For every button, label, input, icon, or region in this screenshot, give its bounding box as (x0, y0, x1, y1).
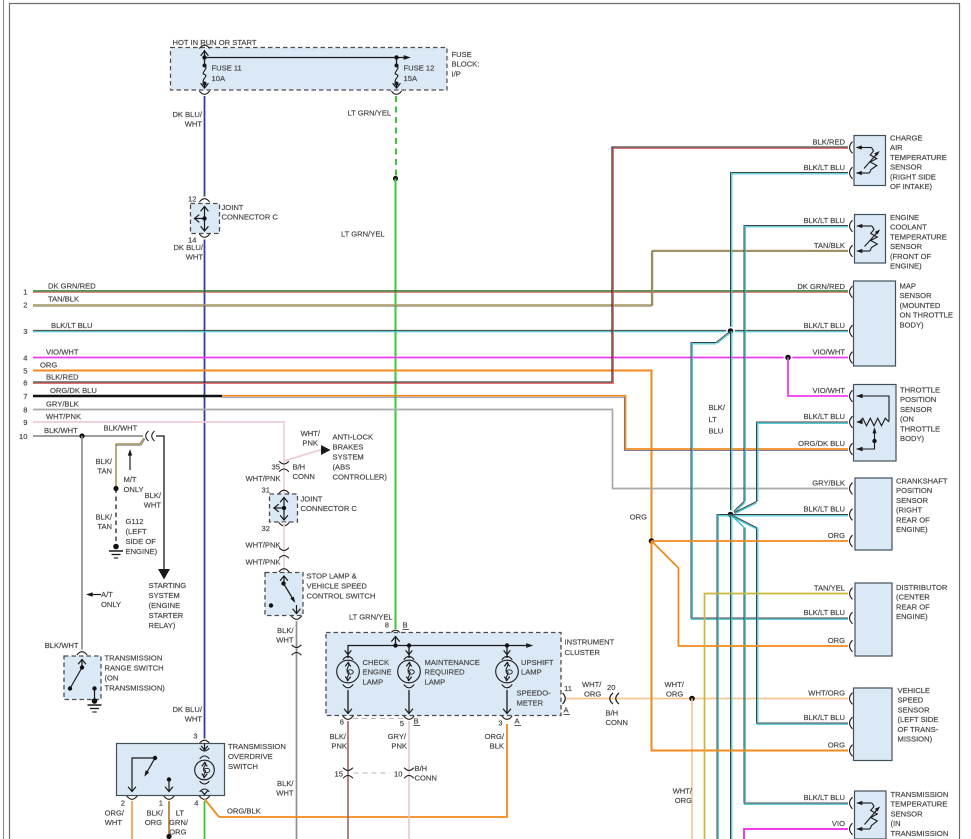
svg-text:4: 4 (23, 354, 27, 363)
crankshaft position sensor (right rear of engine) (803, 477, 947, 551)
distributor (center rear of engine) (803, 583, 947, 656)
svg-text:CONTROLLER): CONTROLLER) (333, 473, 388, 482)
vehicle speed sensor (left side of transmission) (803, 686, 938, 761)
wire VIO from bottom of page to transmission temperature sensor (744, 829, 848, 839)
svg-text:BLK/: BLK/ (96, 457, 113, 466)
svg-text:DK BLU/: DK BLU/ (173, 243, 203, 252)
svg-text:LAMP: LAMP (363, 677, 384, 686)
svg-text:RANGE SWITCH: RANGE SWITCH (105, 664, 164, 673)
B/H connector cavities 15 and 10 (335, 764, 437, 783)
svg-text:RELAY): RELAY) (149, 621, 176, 630)
svg-text:OF TRANS-: OF TRANS- (898, 725, 939, 734)
svg-text:ONLY: ONLY (124, 485, 144, 494)
svg-text:VIO/WHT: VIO/WHT (813, 386, 846, 395)
svg-text:BLK/: BLK/ (330, 732, 347, 741)
svg-text:MISSION): MISSION) (898, 735, 933, 744)
svg-text:GRY/: GRY/ (388, 732, 407, 741)
svg-text:SIDE OF: SIDE OF (126, 537, 157, 546)
svg-text:A/T: A/T (101, 590, 113, 599)
svg-text:10A: 10A (212, 74, 226, 83)
svg-text:AIR: AIR (890, 143, 903, 152)
joint connector C (lower) pins 31/32 (262, 486, 358, 534)
wire BLK/WHT below stop lamp switch to bottom of page (276, 616, 301, 839)
svg-text:3: 3 (193, 732, 197, 741)
svg-text:15: 15 (335, 770, 343, 779)
svg-text:ANTI-LOCK: ANTI-LOCK (333, 433, 374, 442)
wire 8 GRY/BLK to crankshaft position sensor (33, 410, 848, 489)
svg-text:POSITION: POSITION (900, 395, 936, 404)
wire ORG branch to distributor (652, 541, 849, 646)
svg-text:INSTRUMENT: INSTRUMENT (565, 638, 615, 647)
splice on ORG trunk (649, 538, 655, 544)
ground at transmission range switch (88, 698, 102, 712)
svg-text:WHT/: WHT/ (582, 680, 602, 689)
svg-text:FUSE 12: FUSE 12 (404, 64, 435, 73)
wire 7 ORG/DK BLU to throttle position sensor (222, 396, 848, 451)
wire 6 BLK/RED to charge air temperature sensor (33, 147, 848, 383)
fuse F12 FUSE 12 15A (391, 58, 434, 95)
overdrive switch pins 2 1 4 (121, 796, 210, 808)
svg-text:TEMPERATURE: TEMPERATURE (890, 232, 947, 241)
svg-text:DK BLU/: DK BLU/ (172, 705, 202, 714)
svg-text:B/H: B/H (415, 764, 428, 773)
svg-text:SENSOR: SENSOR (890, 242, 923, 251)
svg-text:MAP: MAP (900, 282, 916, 291)
wire 1 DK GRN/RED to MAP sensor (33, 291, 848, 293)
wire DK BLU/WHT from joint connector C down to overdrive switch (172, 240, 204, 739)
svg-text:ENGINE): ENGINE) (126, 547, 158, 556)
svg-text:ORG: ORG (40, 360, 57, 369)
svg-text:I/P: I/P (452, 69, 461, 78)
svg-text:WHT: WHT (105, 818, 123, 827)
svg-text:LT GRN/YEL: LT GRN/YEL (348, 109, 392, 118)
svg-text:SENSOR: SENSOR (896, 496, 929, 505)
svg-text:CONNECTOR C: CONNECTOR C (301, 504, 358, 513)
svg-text:DK GRN/RED: DK GRN/RED (48, 281, 96, 290)
svg-text:35: 35 (272, 463, 280, 472)
speedometer label and cluster pin 11 (517, 684, 573, 715)
svg-text:WHT/: WHT/ (665, 680, 685, 689)
wire LT GRN/ORG from pin 4 (169, 801, 204, 839)
svg-text:1: 1 (159, 799, 163, 808)
svg-text:ORG/BLK: ORG/BLK (227, 807, 261, 816)
svg-text:THROTTLE: THROTTLE (900, 386, 940, 395)
svg-text:CONN: CONN (606, 718, 628, 727)
wire GRY/PNK from cluster pin 5 (388, 721, 409, 839)
svg-text:CHARGE: CHARGE (890, 134, 923, 143)
wire BLK/LT BLU to crankshaft position sensor (731, 515, 849, 516)
svg-text:BLOCK:: BLOCK: (452, 60, 480, 69)
wire BLK/WHT to starting system (144, 436, 164, 569)
MAP sensor (mounted on throttle body) (797, 281, 953, 366)
svg-text:4: 4 (194, 799, 198, 808)
svg-text:SENSOR: SENSOR (898, 705, 931, 714)
svg-text:TAN/BLK: TAN/BLK (814, 241, 845, 250)
svg-text:(RIGHT SIDE: (RIGHT SIDE (890, 172, 936, 181)
svg-text:M/T: M/T (124, 475, 137, 484)
svg-text:ONLY: ONLY (101, 600, 121, 609)
upshift lamp in cluster (496, 650, 554, 713)
svg-text:(CENTER: (CENTER (896, 593, 930, 602)
splice on BLK/WHT (79, 433, 84, 438)
svg-text:ENGINE): ENGINE) (896, 612, 928, 621)
starting system arrow (engine starter relay) (149, 569, 187, 630)
fuse block I/P (dashed box) (171, 38, 480, 90)
B/H connector cavity 35 (245, 461, 314, 483)
svg-text:STOP LAMP &: STOP LAMP & (307, 572, 357, 581)
svg-text:CLUSTER: CLUSTER (565, 648, 601, 657)
wire ORG/BLK from pin 4 to instrument cluster pin 3 (205, 724, 508, 817)
svg-text:7: 7 (23, 392, 27, 401)
wire WHT/PNK down through B/H connector 35 (283, 461, 285, 494)
svg-text:ORG/: ORG/ (105, 809, 125, 818)
svg-text:12: 12 (188, 195, 196, 204)
throttle position sensor (on throttle body) (798, 385, 940, 462)
wire BLK/TAN dashed to ground G112 (96, 489, 116, 545)
maintenance lamp in cluster (398, 650, 480, 713)
svg-text:ENGINE: ENGINE (363, 668, 392, 677)
overdrive indicator lamp (195, 744, 215, 795)
svg-text:ORG: ORG (169, 828, 186, 837)
engine coolant temperature sensor (front of engine) (803, 213, 946, 271)
svg-text:MAINTENANCE: MAINTENANCE (425, 658, 480, 667)
svg-text:CONN: CONN (415, 774, 437, 783)
M/T ONLY arrow (124, 449, 144, 494)
svg-text:BLK/RED: BLK/RED (46, 372, 79, 381)
overdrive switch contacts (128, 756, 173, 792)
svg-text:ENGINE): ENGINE) (896, 525, 928, 534)
svg-text:BLK/LT BLU: BLK/LT BLU (803, 608, 845, 617)
svg-text:WHT: WHT (276, 636, 294, 645)
svg-text:WHT: WHT (186, 253, 204, 262)
svg-text:BLK/LT BLU: BLK/LT BLU (803, 321, 845, 330)
wire BLK/LT BLU riser to charge air temperature sensor (731, 173, 849, 331)
svg-text:JOINT: JOINT (222, 203, 244, 212)
svg-text:FUSE 11: FUSE 11 (212, 64, 242, 73)
svg-text:WHT/PNK: WHT/PNK (46, 412, 81, 421)
svg-text:ORG: ORG (666, 690, 683, 699)
svg-text:SYSTEM: SYSTEM (149, 591, 180, 600)
svg-text:B: B (414, 717, 419, 726)
wire BLK/LT BLU branch left down to bottom of page (717, 515, 731, 839)
splice on WHT/ORG (689, 696, 695, 702)
svg-text:REQUIRED: REQUIRED (425, 668, 466, 677)
joint connector C (upper) pins 12/14 (188, 195, 278, 245)
svg-text:ORG: ORG (584, 690, 601, 699)
svg-text:5: 5 (23, 367, 27, 376)
svg-text:3: 3 (498, 719, 502, 728)
svg-text:WHT/PNK: WHT/PNK (245, 558, 280, 567)
svg-text:ORG: ORG (675, 796, 692, 805)
wire BLK/TAN from clutch switch to ground splice (96, 438, 145, 487)
svg-text:B/H: B/H (606, 709, 619, 718)
svg-text:WHT/PNK: WHT/PNK (245, 541, 280, 550)
clutch upstop switch (two arcs) on BLK/WHT (146, 431, 155, 441)
svg-text:GRN/: GRN/ (169, 818, 189, 827)
svg-text:TRANSMISSION: TRANSMISSION (105, 654, 163, 663)
svg-text:CHECK: CHECK (363, 658, 390, 667)
svg-text:STARTING: STARTING (149, 581, 187, 590)
svg-text:ORG: ORG (828, 636, 845, 645)
svg-text:HOT IN RUN OR START: HOT IN RUN OR START (173, 38, 257, 47)
svg-text:VIO/WHT: VIO/WHT (813, 348, 846, 357)
svg-text:ENGINE): ENGINE) (890, 262, 922, 271)
svg-text:(LEFT SIDE: (LEFT SIDE (898, 715, 939, 724)
wire 5 ORG trunk (33, 371, 652, 542)
svg-text:TEMPERATURE: TEMPERATURE (890, 153, 947, 162)
wire BLK/PNK from cluster pin 6 (330, 721, 348, 839)
svg-text:LT: LT (176, 809, 185, 818)
svg-text:CONNECTOR C: CONNECTOR C (222, 213, 279, 222)
svg-text:BLK/: BLK/ (145, 491, 162, 500)
svg-text:BLK/: BLK/ (147, 809, 164, 818)
svg-text:A: A (564, 706, 570, 715)
svg-text:FUSE: FUSE (452, 50, 472, 59)
wire 2 TAN/BLK to engine coolant temperature sensor (33, 251, 848, 307)
svg-text:BLK/: BLK/ (96, 513, 113, 522)
svg-text:BLK/LT BLU: BLK/LT BLU (51, 321, 93, 330)
check lamp in cluster (337, 650, 392, 713)
svg-text:BODY): BODY) (900, 434, 925, 443)
transmission temperature sensor (in transmission) (803, 790, 948, 839)
svg-text:BLK/: BLK/ (277, 779, 294, 788)
svg-text:OF INTAKE): OF INTAKE) (890, 182, 933, 191)
svg-text:(ENGINE: (ENGINE (149, 601, 181, 610)
svg-text:BLK/LT BLU: BLK/LT BLU (803, 216, 845, 225)
wire DK BLU/WHT from fuse 11 to joint connector C (172, 96, 204, 197)
svg-text:ENGINE: ENGINE (890, 213, 919, 222)
wire 7 ORG/DK BLU (black segment) (33, 395, 222, 398)
svg-text:BLK/WHT: BLK/WHT (45, 641, 79, 650)
svg-text:ORG: ORG (828, 741, 845, 750)
wire ORG/WHT from pin 2 (105, 801, 132, 839)
svg-text:B: B (403, 621, 408, 630)
svg-text:GRY/BLK: GRY/BLK (812, 479, 845, 488)
svg-text:TAN: TAN (97, 522, 112, 531)
svg-text:B/H: B/H (293, 463, 306, 472)
wire BLK/LT BLU riser to engine coolant sensor (731, 226, 849, 516)
svg-text:DK GRN/RED: DK GRN/RED (797, 282, 845, 291)
svg-text:THROTTLE: THROTTLE (900, 424, 940, 433)
wire WHT/ORG from speedometer pin 11 through B/H connector 20 (566, 680, 848, 727)
svg-text:SENSOR: SENSOR (900, 291, 933, 300)
fuse F11 FUSE 11 10A (199, 64, 241, 95)
svg-text:TEMPERATURE: TEMPERATURE (891, 800, 948, 809)
svg-text:BLK/RED: BLK/RED (813, 138, 846, 147)
svg-text:DISTRIBUTOR: DISTRIBUTOR (896, 583, 948, 592)
wire BLK/LT BLU branch to transmission temperature sensor (731, 515, 849, 805)
svg-text:ORG/: ORG/ (485, 732, 505, 741)
svg-text:20: 20 (607, 683, 615, 692)
svg-text:CONN: CONN (293, 472, 315, 481)
svg-text:LT: LT (709, 415, 718, 424)
svg-text:PNK: PNK (302, 439, 318, 448)
svg-text:WHT: WHT (185, 715, 203, 724)
splice of BLK/LT BLU lower (726, 510, 735, 519)
charge air temperature sensor (right side of intake) (803, 134, 946, 192)
svg-text:ORG: ORG (145, 818, 162, 827)
wire ORG to crankshaft position sensor (652, 540, 849, 542)
wire VIO/WHT branch to throttle position sensor (788, 358, 848, 397)
wire 4 VIO/WHT to MAP sensor (33, 357, 848, 359)
anti-lock brakes system (ABS controller) arrow (321, 433, 387, 482)
svg-text:2: 2 (121, 799, 125, 808)
svg-text:(ON: (ON (105, 674, 119, 683)
splice node on LT GRN/YEL (393, 176, 398, 181)
svg-text:TAN: TAN (97, 467, 112, 476)
transmission overdrive switch box (117, 732, 286, 796)
wire BLK/LT BLU trunk between splices (731, 331, 732, 515)
svg-text:8: 8 (385, 621, 389, 630)
svg-text:BLK/LT BLU: BLK/LT BLU (803, 505, 845, 514)
svg-text:(ABS: (ABS (333, 463, 351, 472)
svg-text:9: 9 (23, 418, 27, 427)
svg-text:BLK/LT BLU: BLK/LT BLU (803, 793, 845, 802)
circuit row numbers 1-10 and wire name labels (19, 281, 97, 441)
cluster pins 6 5 3 at bottom (340, 716, 521, 728)
svg-text:WHT: WHT (144, 501, 162, 510)
svg-text:METER: METER (517, 699, 544, 708)
svg-text:TAN/BLK: TAN/BLK (48, 294, 79, 303)
svg-text:8: 8 (23, 406, 27, 415)
svg-text:ORG: ORG (828, 531, 845, 540)
svg-text:UPSHIFT: UPSHIFT (521, 658, 554, 667)
svg-text:(LEFT: (LEFT (126, 527, 147, 536)
svg-text:BODY): BODY) (900, 320, 925, 329)
svg-text:ON THROTTLE: ON THROTTLE (900, 311, 953, 320)
svg-text:G112: G112 (126, 517, 144, 526)
svg-text:VIO: VIO (832, 819, 845, 828)
svg-text:(MOUNTED: (MOUNTED (900, 301, 941, 310)
A/T ONLY arrow (86, 590, 121, 609)
svg-text:BLK/LT BLU: BLK/LT BLU (803, 713, 845, 722)
svg-text:DK BLU/: DK BLU/ (172, 110, 202, 119)
svg-text:(IN: (IN (891, 819, 901, 828)
svg-text:ORG: ORG (630, 513, 647, 522)
svg-text:REAR OF: REAR OF (896, 602, 930, 611)
svg-text:TRANSMISSION): TRANSMISSION) (105, 684, 166, 693)
svg-text:TAN/YEL: TAN/YEL (814, 584, 845, 593)
svg-text:WHT: WHT (276, 789, 294, 798)
svg-text:SYSTEM: SYSTEM (333, 453, 364, 462)
svg-text:10: 10 (394, 770, 402, 779)
svg-text:TRANSMISSION: TRANSMISSION (891, 829, 949, 838)
svg-text:BLK/WHT: BLK/WHT (44, 426, 78, 435)
svg-text:SENSOR: SENSOR (890, 163, 923, 172)
splice on BLK/TAN (113, 486, 118, 491)
svg-text:LAMP: LAMP (521, 668, 542, 677)
svg-text:GRY/BLK: GRY/BLK (46, 399, 79, 408)
svg-text:WHT/: WHT/ (301, 429, 321, 438)
splice on VIO/WHT (784, 353, 793, 362)
svg-text:6: 6 (340, 718, 344, 727)
wire LT GRN/YEL from fuse 12 (dashed off-page segment) (348, 96, 397, 177)
wire WHT/PNK from connector 32 to stop lamp switch (245, 522, 289, 572)
svg-text:PNK: PNK (331, 742, 347, 751)
svg-text:WHT/ORG: WHT/ORG (808, 689, 845, 698)
svg-text:ORG/DK BLU: ORG/DK BLU (798, 439, 845, 448)
svg-text:REAR OF: REAR OF (896, 515, 930, 524)
ground G112 (left side of engine) (109, 517, 158, 558)
svg-text:SWITCH: SWITCH (228, 762, 258, 771)
svg-text:3: 3 (23, 327, 27, 336)
svg-text:LAMP: LAMP (425, 677, 446, 686)
svg-text:BLK/WHT: BLK/WHT (104, 424, 138, 433)
svg-text:TRANSMISSION: TRANSMISSION (891, 790, 949, 799)
svg-text:11: 11 (564, 684, 572, 693)
hot feed node and bus inside fuse block (199, 45, 410, 65)
svg-text:BRAKES: BRAKES (333, 443, 364, 452)
svg-text:(ON: (ON (900, 415, 914, 424)
svg-text:CRANKSHAFT: CRANKSHAFT (896, 477, 948, 486)
svg-text:CONTROL SWITCH: CONTROL SWITCH (307, 592, 376, 601)
svg-text:(FRONT OF: (FRONT OF (890, 252, 932, 261)
svg-text:OVERDRIVE: OVERDRIVE (228, 752, 273, 761)
svg-text:WHT: WHT (185, 120, 203, 129)
svg-text:10: 10 (19, 432, 27, 441)
svg-text:SENSOR: SENSOR (900, 405, 933, 414)
transmission range switch (on transmission) (64, 652, 165, 700)
svg-text:ORG/DK BLU: ORG/DK BLU (50, 386, 97, 395)
svg-text:15A: 15A (404, 74, 418, 83)
svg-text:SPEED: SPEED (898, 696, 924, 705)
svg-text:32: 32 (262, 524, 270, 533)
svg-text:6: 6 (23, 379, 27, 388)
svg-text:BLK/: BLK/ (709, 403, 726, 412)
svg-text:POSITION: POSITION (896, 486, 932, 495)
wire 10 BLK/WHT trunk (33, 424, 143, 437)
svg-text:VEHICLE SPEED: VEHICLE SPEED (307, 582, 368, 591)
svg-text:WHT/PNK: WHT/PNK (245, 474, 280, 483)
stop lamp & vehicle speed control switch (265, 572, 375, 616)
svg-text:TRANSMISSION: TRANSMISSION (228, 742, 286, 751)
svg-text:WHT/: WHT/ (673, 787, 693, 796)
splice of BLK/LT BLU on circuit 3 (726, 327, 735, 336)
svg-text:BLK: BLK (490, 742, 504, 751)
wire ORG trunk down to vehicle speed sensor (652, 541, 849, 751)
svg-text:BLK/LT BLU: BLK/LT BLU (803, 412, 845, 421)
wire BLK/ORG from pin 1 (145, 801, 172, 839)
wire BLK/LT BLU branch to vehicle speed sensor (731, 515, 849, 725)
svg-text:STARTER: STARTER (149, 611, 184, 620)
wire BLK/LT BLU riser to throttle position sensor (731, 422, 849, 516)
svg-text:1: 1 (23, 288, 27, 297)
svg-text:31: 31 (262, 486, 270, 495)
svg-text:(RIGHT: (RIGHT (896, 506, 923, 515)
svg-text:VEHICLE: VEHICLE (898, 686, 931, 695)
svg-text:VIO/WHT: VIO/WHT (46, 347, 79, 356)
svg-text:JOINT: JOINT (301, 495, 323, 504)
wire TAN/YEL from bottom of page to distributor (705, 594, 849, 839)
svg-text:5: 5 (400, 719, 404, 728)
cluster feed bus from pin 8 (348, 637, 533, 659)
svg-text:BLK/LT BLU: BLK/LT BLU (803, 163, 845, 172)
wire 9 WHT/PNK trunk (33, 422, 284, 461)
wire BLK/LT BLU branch to distributor (691, 331, 848, 619)
svg-text:PNK: PNK (391, 742, 407, 751)
svg-text:LT GRN/YEL: LT GRN/YEL (341, 230, 385, 239)
wire WHT/PNK branch to anti-lock brakes system (284, 429, 322, 461)
svg-text:BLK/: BLK/ (277, 626, 294, 635)
svg-text:SPEEDO-: SPEEDO- (517, 689, 552, 698)
svg-text:2: 2 (23, 301, 27, 310)
wire LT GRN/YEL down to instrument cluster pin 8 (341, 179, 396, 630)
svg-text:BLU: BLU (709, 427, 724, 436)
svg-text:COOLANT: COOLANT (890, 223, 927, 232)
wire WHT/ORG branch down to bottom of page (673, 699, 693, 839)
svg-text:A: A (515, 717, 521, 726)
wire BLK/WHT A/T branch down to transmission range switch (45, 436, 82, 650)
